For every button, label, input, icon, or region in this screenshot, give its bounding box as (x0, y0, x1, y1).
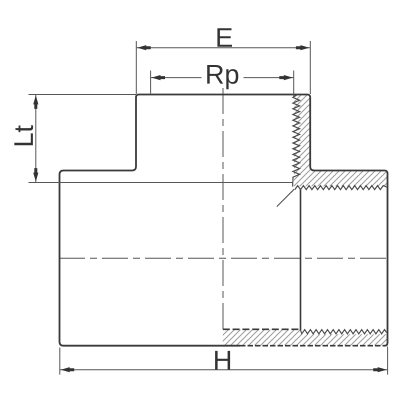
leader line to thread (277, 189, 294, 206)
pipe bottom internal thread zigzag (301, 330, 387, 334)
centerline horizontal (pipe axis) (59, 257, 388, 259)
label Rp (207, 65, 238, 89)
pipe top internal thread zigzag (295, 186, 387, 190)
centerline vertical (branch axis) (222, 88, 224, 330)
label Lt (rotated) (14, 125, 33, 145)
main outline (tee body) (60, 95, 388, 346)
hatch fill: branch right wall + pipe top-right band (294, 95, 387, 186)
branch internal thread zigzag (right side, section) (293, 95, 300, 187)
hatch fill: pipe bottom-right band (223, 330, 387, 346)
label E (217, 28, 232, 47)
dashed socket edge (hidden) (223, 328, 301, 330)
dashed part of bottom outline (sectioned half) (240, 345, 387, 347)
label H (215, 351, 230, 370)
thread end vertical line (300, 190, 302, 331)
